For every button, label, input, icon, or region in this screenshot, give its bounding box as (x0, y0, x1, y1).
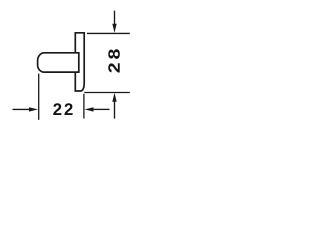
dim 28 top extension line (87, 32, 130, 34)
dim 22 left extension line (38, 74, 40, 120)
dim 28 bottom extension line (84, 92, 130, 94)
dim 22 left arrow (points right, outside) (13, 107, 39, 111)
dim 28 bottom arrow (points up, outside) (112, 93, 116, 119)
dim 22 right arrow (points left, outside) (85, 107, 110, 111)
knob stem with rounded cap (drawn over plate left edge) (38, 53, 79, 72)
dim 28 top arrow (points down, outside) (112, 11, 116, 33)
dim 22 label (53, 103, 72, 115)
dim 28 label (rotated) (108, 49, 120, 72)
dim 22 right extension line (83, 94, 85, 119)
knob base plate (side view, tall thin rectangle) (75, 33, 84, 91)
